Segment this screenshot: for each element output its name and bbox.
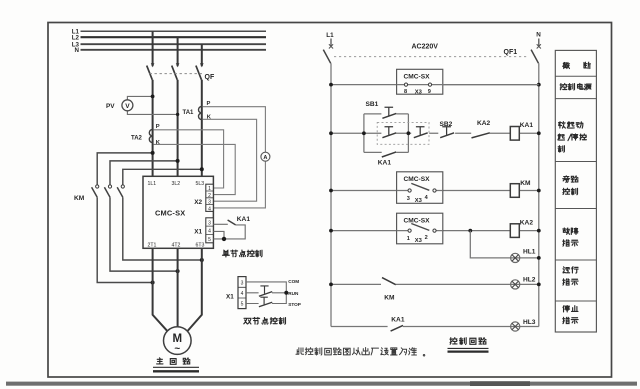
svg-text:CMC-SX: CMC-SX xyxy=(404,176,431,183)
rung 5 wire run indication xyxy=(331,283,539,285)
svg-text:QF1: QF1 xyxy=(504,49,518,56)
legend: fault indication xyxy=(563,228,578,235)
svg-text:KM: KM xyxy=(384,295,395,302)
junction node X1 pins 4-5 xyxy=(222,237,226,241)
svg-text:X3: X3 xyxy=(415,89,423,95)
KM bypass contact pole 3 top wire xyxy=(123,169,202,184)
svg-text:2: 2 xyxy=(208,193,211,199)
svg-text:KM: KM xyxy=(74,195,85,202)
legend: run indication xyxy=(563,267,578,273)
svg-text:X3: X3 xyxy=(415,198,423,204)
CMC-SX fault output box (1 X3 2) xyxy=(397,213,443,244)
SB1 twin contact (middle) xyxy=(382,133,396,138)
svg-text:SB1: SB1 xyxy=(366,101,379,108)
svg-text:8: 8 xyxy=(404,89,407,95)
svg-text:3: 3 xyxy=(208,220,211,226)
legend divider y=98.6 xyxy=(555,98,596,100)
terminal 3 xyxy=(408,189,411,192)
svg-text:9: 9 xyxy=(428,89,431,95)
svg-text:5L3: 5L3 xyxy=(196,181,205,187)
TA1 secondary P wire to ammeter loop xyxy=(203,107,266,208)
svg-text:COM: COM xyxy=(288,279,299,284)
label dan-jie-dian-kong-zhi (single node control) xyxy=(222,250,262,257)
svg-text:4T2: 4T2 xyxy=(172,242,181,248)
svg-text:4: 4 xyxy=(208,206,211,212)
svg-text:HL1: HL1 xyxy=(523,248,536,255)
label shuang-jie-dian-kong-zhi (dual node control) xyxy=(244,317,286,324)
junction node PV-L1 xyxy=(151,95,155,99)
voltmeter PV xyxy=(122,100,133,111)
contact KM (run) xyxy=(382,278,396,285)
terminal 8 xyxy=(404,83,407,86)
run pushbutton (dual) xyxy=(259,292,272,297)
svg-text:L2: L2 xyxy=(72,35,80,42)
svg-text:AC220V: AC220V xyxy=(412,44,439,51)
terminal 1 xyxy=(408,229,411,232)
circuit breaker QF pole 3 xyxy=(200,63,204,67)
svg-text:KA1: KA1 xyxy=(237,216,251,223)
voltmeter PV wires xyxy=(127,96,177,114)
junction node phase 1 bottom xyxy=(151,281,155,285)
TA2 secondary K wire loop xyxy=(154,144,236,194)
legend: stop indication xyxy=(563,306,578,312)
svg-text:2: 2 xyxy=(425,235,428,241)
circuit breaker QF pole 1 xyxy=(151,63,155,67)
QF linkage dashed line xyxy=(150,73,204,75)
KM bypass contact pole 1 top wire xyxy=(97,153,152,185)
svg-text:CMC-SX: CMC-SX xyxy=(155,208,185,217)
stop lamp HL3 xyxy=(511,322,520,331)
single node control loop wire xyxy=(213,225,245,239)
svg-text:X1: X1 xyxy=(194,228,202,235)
CMC-SX bypass output box (3 X3 4) xyxy=(397,172,443,204)
run lamp HL2 xyxy=(511,280,520,289)
terminal 2 xyxy=(433,229,436,232)
legend: soft start / stop control xyxy=(559,122,583,128)
svg-text:HL2: HL2 xyxy=(523,277,536,284)
internal contact rung4 xyxy=(411,224,429,231)
bus line L3 xyxy=(81,43,267,45)
right control rail N xyxy=(538,63,540,326)
svg-text:X3: X3 xyxy=(415,238,423,244)
svg-text:KA1: KA1 xyxy=(520,122,534,129)
svg-text:PV: PV xyxy=(106,103,115,110)
rung 1 wire control power xyxy=(331,84,539,86)
KM bypass contact pole 2 top wire xyxy=(110,161,178,185)
svg-text:N: N xyxy=(75,47,80,54)
junction node phase 3 top xyxy=(200,167,204,171)
current transformer TA2 xyxy=(149,129,152,142)
junction node phase 1 top xyxy=(151,151,155,155)
rung 2 wire soft start/stop control xyxy=(331,132,539,134)
stop pushbutton SB2 xyxy=(440,133,454,138)
KM bypass contact pole 1 bottom wire xyxy=(97,197,152,282)
photo table edge band xyxy=(6,382,637,386)
fault lamp HL1 xyxy=(511,253,520,262)
left control rail xyxy=(330,63,332,326)
junction node phase 2 top xyxy=(176,159,180,163)
control breaker QF1 pole N xyxy=(538,39,540,47)
terminal 4 xyxy=(433,189,436,192)
connector X1 block xyxy=(206,218,214,243)
terminal 9 xyxy=(428,83,431,86)
relay coil KA1 xyxy=(510,127,519,141)
connector X2 block xyxy=(206,184,214,211)
legend: micro breaker xyxy=(563,62,570,68)
junction node to HL1 xyxy=(468,229,472,233)
rung 4 wire fault output xyxy=(331,230,539,232)
svg-text:X2: X2 xyxy=(194,199,202,206)
svg-text:RUN: RUN xyxy=(288,291,299,296)
svg-text:KA2: KA2 xyxy=(477,120,491,127)
svg-text:KA1: KA1 xyxy=(391,317,405,324)
holding contact KA1 xyxy=(382,152,396,157)
legend divider y=260.0 xyxy=(555,259,596,261)
svg-text:KA1: KA1 xyxy=(378,160,392,167)
contactor coil KM xyxy=(510,184,519,198)
KM bypass contact pole 3 bottom wire xyxy=(123,197,202,260)
svg-text:TA2: TA2 xyxy=(131,136,143,142)
dual node connector X1 block xyxy=(238,277,246,309)
svg-text:2T1: 2T1 xyxy=(148,242,157,248)
svg-text:1: 1 xyxy=(407,236,410,242)
TA2 secondary P wire loop xyxy=(154,130,224,188)
note: this control circuit is per factory settings xyxy=(296,348,425,356)
wire phase A QF to terminal 1L1 xyxy=(152,80,154,177)
linked pushbutton contact (dashed) xyxy=(414,133,428,138)
svg-text:KA2: KA2 xyxy=(520,220,534,227)
svg-text:5: 5 xyxy=(241,302,244,308)
svg-text:STOP: STOP xyxy=(288,302,301,307)
rung 3 wire bypass control xyxy=(331,190,539,192)
svg-text:L1: L1 xyxy=(326,32,334,39)
dual node COM wire xyxy=(246,282,286,304)
svg-text:X1: X1 xyxy=(226,293,234,300)
legend divider y=208.5 xyxy=(555,208,596,210)
junction node PV-L2 xyxy=(176,113,179,116)
dual node STOP wire xyxy=(246,303,286,305)
wire phase C from L3 to QF xyxy=(201,44,203,66)
motor M xyxy=(164,327,192,355)
contact KA1 (stop) xyxy=(391,325,403,331)
KM bypass contact pole 2 bottom wire xyxy=(110,197,178,271)
legend divider y=161.5 xyxy=(555,161,596,163)
start pushbutton SB1 xyxy=(382,113,396,118)
control breaker QF1 pole L1 xyxy=(330,39,332,47)
svg-text:1: 1 xyxy=(208,186,211,192)
internal contact rung3 xyxy=(411,183,429,190)
ammeter A xyxy=(261,152,270,161)
svg-text:3: 3 xyxy=(208,200,211,206)
svg-text:KM: KM xyxy=(520,180,531,187)
svg-text:V: V xyxy=(125,103,130,110)
parallel branch frame SB1/KA1 xyxy=(364,114,409,152)
legend: bypass control xyxy=(563,176,578,182)
svg-text:3: 3 xyxy=(407,196,410,202)
wire 6T3 to motor xyxy=(186,248,202,332)
single node control wiring: X1 pin3 wire xyxy=(213,223,227,225)
CMC-SX control supply terminals box (8 X3 9) xyxy=(397,69,443,94)
KM contact pole 1 xyxy=(96,185,99,188)
svg-text:5: 5 xyxy=(208,237,211,243)
svg-text:CMC-SX: CMC-SX xyxy=(404,217,431,224)
svg-text:A: A xyxy=(263,155,267,161)
wire phase B from L2 to QF xyxy=(177,37,179,66)
svg-text:3L2: 3L2 xyxy=(172,181,181,187)
legend divider y=76.2 xyxy=(555,75,596,77)
label zhu-hui-lu (main circuit) xyxy=(157,358,190,364)
TA1 secondary K wire loop xyxy=(203,119,257,201)
svg-text:P: P xyxy=(207,101,211,107)
svg-text:N: N xyxy=(536,32,541,39)
bus line L2 xyxy=(81,36,267,38)
svg-text:1L1: 1L1 xyxy=(148,181,157,187)
dual node RUN wire xyxy=(246,292,286,294)
legend divider y=301.0 xyxy=(555,300,596,302)
relay coil KA2 xyxy=(510,224,519,238)
interlock contact KA2 xyxy=(472,133,490,138)
QF1 linkage dashed line xyxy=(334,56,529,58)
svg-text:4: 4 xyxy=(208,229,211,235)
wire 4T2 to motor xyxy=(177,248,179,327)
bus line N xyxy=(81,49,267,51)
stop pushbutton (dual) xyxy=(259,302,272,307)
legend column box xyxy=(555,50,596,332)
wire 2T1 to motor xyxy=(153,248,169,332)
KM contact pole 2 xyxy=(108,185,111,188)
junction node RUN/COM xyxy=(284,291,288,295)
label kong-zhi-hui-lu (control circuit) xyxy=(450,338,486,345)
linkage dashed box xyxy=(377,122,429,144)
svg-text:4: 4 xyxy=(241,291,244,297)
KM contact pole 3 xyxy=(121,185,124,188)
junction node phase 3 bottom xyxy=(200,258,204,262)
X1 pin4 jog wire xyxy=(213,231,224,239)
svg-text:QF: QF xyxy=(205,74,215,81)
wire phase A from L1 to QF xyxy=(152,31,154,66)
junction node phase 2 bottom xyxy=(176,269,180,273)
circuit breaker QF pole 2 xyxy=(176,63,180,67)
svg-text:~: ~ xyxy=(174,344,180,355)
legend: control power xyxy=(560,84,591,91)
fault lamp HL1 wire xyxy=(470,231,539,258)
rung 6 wire stop indication xyxy=(331,326,539,328)
svg-text:HL3: HL3 xyxy=(523,319,536,326)
wire phase C QF to terminal 5L3 xyxy=(201,80,203,177)
wire phase B QF to terminal 3L2 xyxy=(177,80,179,177)
soft starter unit U1 CMC-SX box xyxy=(143,176,213,248)
bus line L1 xyxy=(81,30,267,32)
svg-text:TA1: TA1 xyxy=(183,110,195,116)
svg-text:3: 3 xyxy=(241,280,244,286)
current transformer TA1 xyxy=(199,106,202,119)
svg-text:6T3: 6T3 xyxy=(196,242,205,248)
svg-text:SB2: SB2 xyxy=(440,121,453,128)
svg-text:CMC-SX: CMC-SX xyxy=(404,74,431,81)
contact KA1 (single node) xyxy=(228,220,236,225)
